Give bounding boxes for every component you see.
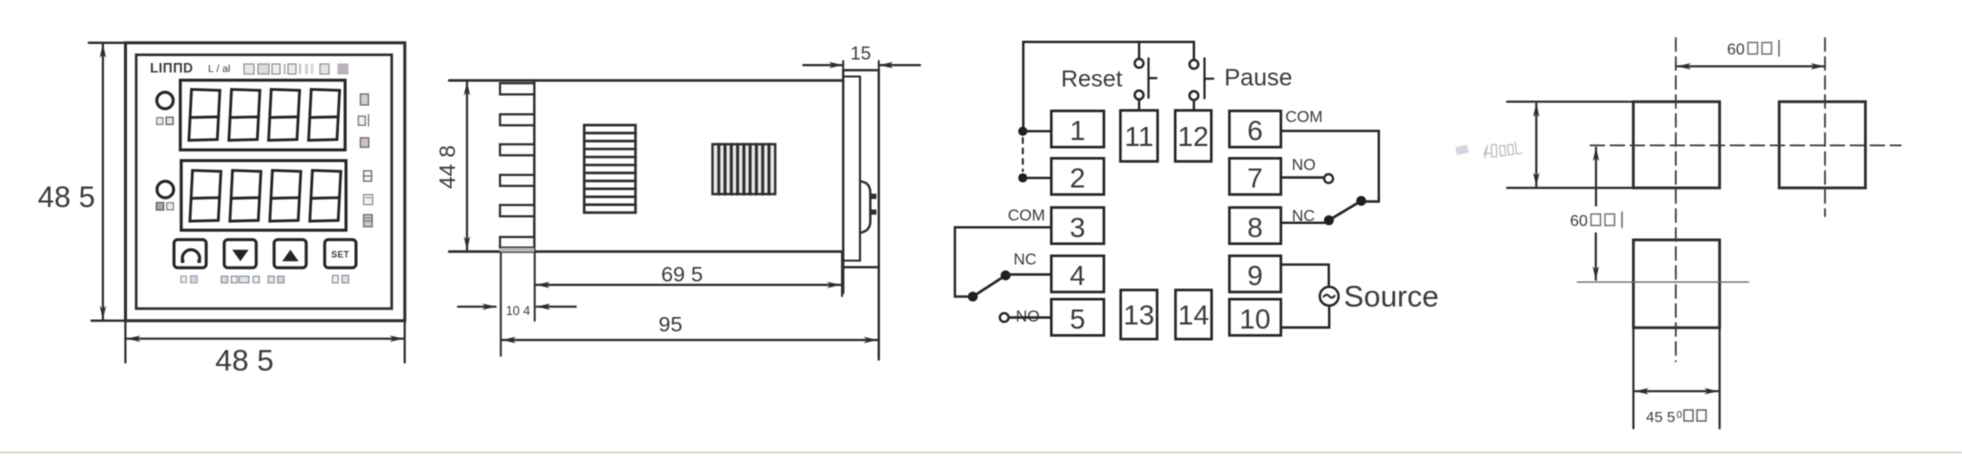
- svg-text:3: 3: [1070, 212, 1086, 243]
- extension bottom-left A: [1507, 187, 1633, 189]
- switch lever left: [973, 275, 1006, 296]
- lower display digits: [190, 170, 341, 221]
- upper right indicator 1: [360, 94, 368, 105]
- case top edge: [449, 79, 843, 82]
- dimension 15 extension left: [842, 61, 844, 70]
- extension line top-left: [89, 42, 126, 44]
- svg-text:4: 4: [1070, 260, 1086, 291]
- terminal tab 3: [500, 144, 534, 155]
- svg-text:Reset: Reset: [1061, 66, 1123, 92]
- dimension line 60 vertical lower: [1595, 233, 1597, 279]
- centerline horizontal C: [1577, 281, 1748, 283]
- case bottom edge: [449, 250, 842, 253]
- node switch pivot right: [1356, 196, 1366, 206]
- upper display digits: [189, 89, 340, 140]
- svg-text:10: 10: [1239, 304, 1270, 335]
- dimension label width C: [1646, 409, 1706, 426]
- FRONT VIEW BLOCK: [38, 43, 405, 378]
- latch clip upper: [871, 194, 876, 199]
- svg-text:NO: NO: [1292, 157, 1316, 174]
- terminal 6: [1229, 111, 1281, 147]
- svg-text:COM: COM: [1008, 208, 1045, 225]
- dimension line 69.5: [536, 284, 840, 286]
- terminal 11: [1120, 110, 1157, 161]
- svg-text:L / al: L / al: [208, 63, 230, 75]
- vent grille horizontal: [584, 125, 635, 213]
- svg-text:5: 5: [1070, 304, 1086, 335]
- cutout square B: [1779, 102, 1865, 188]
- dimension 69.5 extension right: [841, 253, 843, 296]
- svg-text:SET: SET: [331, 250, 349, 260]
- node switch pivot left: [968, 292, 978, 302]
- wire no left: [1009, 316, 1052, 318]
- dimension 15 extension right: [878, 61, 880, 70]
- case rear wall: [533, 80, 535, 251]
- wire nc right: [1281, 222, 1326, 224]
- extension line bottom-left: [92, 320, 126, 322]
- top indicator squares: [244, 64, 349, 75]
- terminal tab 5: [500, 205, 534, 216]
- latch clip lower: [871, 210, 876, 215]
- button 1 arc icon: [182, 250, 199, 259]
- terminal 8: [1229, 208, 1281, 244]
- dimension line 60 horizontal: [1677, 65, 1824, 67]
- lower LED labels: [156, 203, 163, 210]
- svg-text:10 4: 10 4: [506, 304, 530, 318]
- dimension 69.5 extension left: [534, 253, 536, 321]
- centerline horizontal AB: [1590, 144, 1900, 146]
- node nc contact left: [1001, 270, 1011, 280]
- svg-text:60: 60: [1570, 213, 1588, 230]
- button 2 down: [224, 240, 256, 268]
- button 3 up: [274, 240, 306, 268]
- terminal tab 4: [500, 175, 534, 186]
- button 2 down-arrow icon: [232, 250, 248, 261]
- button 2 caption: [221, 276, 259, 283]
- wire source top: [1281, 265, 1329, 287]
- dimension label height faint: [1483, 141, 1521, 157]
- terminal 4: [1051, 256, 1104, 292]
- wire com left: [955, 227, 1051, 296]
- svg-text:60: 60: [1727, 42, 1745, 59]
- bezel rear wall: [842, 70, 844, 293]
- terminal 1: [1051, 111, 1104, 147]
- button 3 up-arrow icon: [282, 250, 298, 261]
- dimension line 15 left part: [803, 64, 842, 66]
- terminal 13: [1121, 290, 1157, 339]
- svg-text:14: 14: [1178, 300, 1209, 331]
- upper LED lamp: [157, 92, 173, 108]
- dimension line 48.5 horizontal: [127, 338, 403, 340]
- wire nc left: [1007, 273, 1052, 275]
- svg-text:COM: COM: [1285, 109, 1322, 126]
- upper display frame: [180, 80, 345, 150]
- svg-text:11: 11: [1124, 121, 1153, 152]
- bezel bottom edge: [843, 266, 879, 268]
- terminal 7: [1229, 158, 1281, 194]
- dimension label 60 top: [1727, 41, 1779, 59]
- svg-text:15: 15: [850, 43, 871, 64]
- terminal 2: [1051, 158, 1104, 194]
- svg-text:95: 95: [659, 313, 683, 337]
- svg-text:44 8: 44 8: [435, 145, 460, 189]
- button 3 caption: [268, 276, 284, 283]
- button 1 loop: [174, 240, 206, 268]
- terminal tab 1: [500, 83, 534, 94]
- TERMINAL WIRING BLOCK: [955, 42, 1469, 339]
- dimension line 95: [502, 339, 877, 341]
- terminal tab 6: [500, 237, 534, 248]
- no contact left: [1000, 313, 1009, 322]
- stray watermark: [1455, 145, 1468, 155]
- dimension 10.4 arrow left: [458, 306, 496, 308]
- upper LED labels: [157, 118, 163, 125]
- svg-text:6: 6: [1247, 115, 1263, 146]
- wire top bus: [1023, 42, 1194, 131]
- svg-text:48 5: 48 5: [38, 181, 95, 214]
- extension top-left A: [1507, 101, 1633, 103]
- dimension line 60 vertical upper: [1595, 148, 1597, 206]
- svg-text:8: 8: [1247, 212, 1263, 243]
- wire com right: [1281, 131, 1379, 202]
- svg-text:2: 2: [1070, 163, 1086, 194]
- svg-text:7: 7: [1247, 163, 1263, 194]
- page bottom rule: [0, 452, 1962, 454]
- extension line bottom edge left: [124, 321, 126, 363]
- pause switch: [1190, 58, 1214, 110]
- svg-text:0: 0: [1677, 410, 1683, 421]
- svg-text:69 5: 69 5: [661, 263, 703, 287]
- switch lever right: [1330, 201, 1362, 220]
- svg-text:Source: Source: [1344, 281, 1439, 314]
- terminal 12: [1175, 110, 1211, 161]
- extension below C left: [1632, 328, 1634, 429]
- svg-text:13: 13: [1123, 300, 1154, 331]
- dimension height arrow: [1535, 104, 1537, 187]
- terminal 14: [1176, 290, 1212, 339]
- svg-text:Pause: Pause: [1224, 64, 1292, 91]
- bezel inner bottom edge: [844, 260, 860, 262]
- svg-text:12: 12: [1178, 121, 1209, 152]
- svg-text:NC: NC: [1013, 252, 1036, 269]
- dimension 10.4 arrow right: [537, 306, 576, 308]
- svg-text:9: 9: [1247, 260, 1263, 291]
- wire no right: [1281, 176, 1324, 178]
- node nc contact right: [1324, 215, 1334, 225]
- node terminal 2: [1018, 173, 1051, 182]
- wire dashed link: [1022, 138, 1024, 171]
- dimension width arrow C: [1635, 390, 1718, 392]
- svg-text:45 5: 45 5: [1646, 409, 1675, 426]
- wire source bottom: [1281, 306, 1329, 328]
- SIDE VIEW BLOCK: [435, 43, 920, 360]
- terminal 9: [1229, 256, 1281, 292]
- extension below C right: [1718, 328, 1720, 429]
- front inner panel rect: [136, 55, 392, 309]
- svg-text:LIΠΠD: LIΠΠD: [150, 61, 193, 76]
- lower right indicator 3: [364, 215, 373, 227]
- terminal 10: [1229, 299, 1281, 335]
- dimension line 48.5 vertical: [102, 44, 104, 319]
- upper right indicator 2: [358, 115, 368, 127]
- dimension line 44.8: [466, 82, 468, 250]
- lower LED lamp: [157, 181, 174, 198]
- wire reset branch: [1138, 42, 1140, 59]
- lower right indicator 1: [364, 171, 372, 181]
- dimension label 60 mid: [1570, 212, 1622, 230]
- cutout square C: [1633, 240, 1719, 328]
- cutout square A: [1633, 102, 1719, 188]
- bezel front face: [878, 70, 880, 359]
- bezel inner wall: [859, 77, 861, 261]
- lower right indicator 2: [364, 195, 373, 205]
- centerline vertical A: [1675, 38, 1677, 361]
- PANEL CUTOUT BLOCK: [1483, 38, 1900, 428]
- svg-text:48 5: 48 5: [215, 345, 273, 378]
- dimension line 15 right part: [880, 64, 921, 66]
- lower display frame: [181, 161, 346, 231]
- centerline vertical B: [1824, 38, 1826, 216]
- terminal 3: [1051, 208, 1104, 244]
- button 4 caption: [333, 275, 349, 282]
- reset switch: [1135, 58, 1157, 110]
- no contact right: [1324, 174, 1333, 183]
- mounting latch: [862, 182, 871, 233]
- vent grille vertical: [713, 144, 776, 194]
- extension line bottom edge right: [404, 321, 406, 363]
- node terminal 1: [1018, 127, 1051, 136]
- svg-text:1: 1: [1070, 115, 1086, 146]
- terminal tab 2: [500, 114, 534, 125]
- front outer bezel rect: [126, 43, 405, 321]
- button 1 caption: [181, 276, 197, 283]
- bezel inner top edge: [845, 76, 861, 78]
- terminal 5: [1051, 299, 1104, 335]
- bezel top edge: [843, 69, 879, 71]
- dimension 95 extension left: [500, 253, 502, 356]
- terminal base shading: [500, 248, 534, 252]
- upper right indicator 3: [360, 138, 368, 147]
- button 4 set: [325, 240, 356, 268]
- source symbol: [1320, 287, 1339, 306]
